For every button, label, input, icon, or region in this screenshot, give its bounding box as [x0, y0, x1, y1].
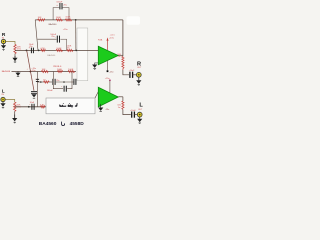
svg-text:100K: 100K	[65, 17, 71, 19]
wire output vertical R	[122, 20, 124, 57]
wire jack R to pot	[6, 42, 16, 45]
watermark box tall	[77, 28, 88, 81]
svg-text:1%: 1%	[67, 47, 70, 49]
resistor R7 output	[122, 56, 124, 70]
svg-text:100K: 100K	[57, 69, 63, 71]
wire diagonal to op2 inverting input	[95, 92, 98, 98]
ground below L feedback wire	[17, 72, 19, 73]
node R3 out	[75, 50, 77, 52]
svg-text:10uF: 10uF	[30, 102, 35, 104]
resistor R13 output L	[122, 101, 124, 109]
ground under R jack	[3, 44, 5, 46]
svg-text:BA4560: BA4560	[47, 54, 56, 57]
wire cap to jack R	[133, 74, 137, 76]
svg-text:100K: 100K	[68, 69, 74, 71]
capacitor C11 output L	[131, 112, 133, 118]
svg-text:10K: 10K	[38, 17, 42, 19]
resistor R11 stub	[44, 81, 50, 83]
wire output vertical L	[122, 97, 124, 101]
wire op2 output	[118, 96, 123, 98]
ground under op2	[100, 104, 102, 108]
wire stub mid L	[38, 81, 53, 83]
wire feedback tap down	[75, 20, 77, 51]
capacitor C5 in vertical	[36, 78, 39, 80]
ground under L jack	[2, 102, 4, 104]
svg-text:100K: 100K	[56, 17, 62, 19]
node feedback tap	[75, 19, 77, 21]
wire cap loop left leg	[53, 8, 59, 20]
node after C1	[38, 50, 40, 52]
capacitor C6 stub	[52, 79, 54, 85]
wire L loop cap	[53, 72, 63, 89]
jack L input	[1, 97, 5, 101]
text box	[46, 98, 95, 114]
jack R output	[136, 72, 141, 77]
svg-text:100K: 100K	[56, 48, 62, 50]
wire to output L jack	[123, 109, 131, 114]
capacitor C1 R input coupling	[30, 48, 32, 54]
node L chain	[28, 106, 30, 108]
wire bias rail vertical	[27, 50, 34, 90]
resistor R3 chain	[66, 49, 72, 51]
svg-text:4.7K: 4.7K	[40, 48, 45, 50]
op-amp U1A	[98, 46, 118, 65]
capacitor C2 feedback	[59, 3, 61, 9]
svg-text:100uF: 100uF	[47, 90, 54, 92]
svg-text:BA4560: BA4560	[49, 23, 58, 26]
wire feedback left drop	[35, 20, 38, 51]
ground under R output jack	[138, 77, 140, 80]
potentiometer L channel	[14, 102, 16, 111]
node stub L left	[40, 81, 42, 83]
resistor R10 L feedback	[68, 70, 75, 72]
svg-text:BA4560: BA4560	[39, 121, 57, 127]
svg-text:PR03LS: PR03LS	[53, 66, 62, 68]
watermark patch	[127, 16, 141, 25]
potentiometer R channel	[14, 45, 16, 54]
wire jack L to pot	[5, 100, 15, 103]
svg-text:10K: 10K	[42, 69, 46, 71]
resistor R4 feedback	[38, 19, 45, 21]
ground under pot L	[14, 115, 16, 119]
wire cap loop right leg	[63, 8, 69, 20]
svg-text:+10uF: +10uF	[129, 70, 136, 72]
op-amp U1B	[98, 87, 118, 107]
supply V- pin op1	[107, 61, 109, 71]
svg-text:R3A: R3A	[98, 38, 103, 41]
jack R input	[1, 39, 5, 43]
capacitor C9 rail horizontal bars	[31, 91, 37, 93]
wire to output R jack	[123, 70, 129, 75]
capacitor C4 output R	[129, 72, 131, 78]
resistor R9 L feedback	[57, 70, 62, 72]
capacitor C7 stub end	[73, 79, 75, 85]
capacitor C8 L loop	[63, 86, 65, 92]
svg-text:100uF: 100uF	[56, 2, 63, 4]
wire L feedback chain	[12, 71, 77, 73]
arabic text squiggles	[59, 103, 77, 108]
capacitor C3 stub	[56, 36, 58, 43]
resistor R2 chain	[56, 49, 63, 51]
bottom glyph	[62, 122, 65, 126]
wire feedback top R	[35, 19, 123, 21]
node rail crossing	[30, 71, 32, 73]
svg-text:BA4560B: BA4560B	[2, 70, 11, 73]
svg-text:L: L	[139, 102, 143, 108]
jack L output	[137, 112, 142, 117]
resistor R1 chain	[41, 49, 46, 51]
node bias tap R	[26, 50, 28, 52]
svg-text:+C15: +C15	[110, 34, 116, 36]
svg-text:+10uF: +10uF	[130, 110, 137, 112]
wire stub mid R	[38, 38, 57, 40]
wire R signal chain	[15, 49, 98, 51]
ground under L output jack	[139, 117, 141, 119]
svg-text:4.7K: 4.7K	[40, 104, 45, 106]
resistor R8 L feedback	[41, 70, 48, 72]
capacitor C10 L coupling	[31, 104, 33, 110]
resistor R6 feedback	[65, 19, 71, 21]
svg-text:25v: 25v	[56, 80, 59, 82]
resistor R12 L chain	[41, 106, 46, 108]
inverting input stub ground op1	[95, 63, 99, 65]
wire L vertical drop	[37, 72, 39, 107]
svg-text:4558D: 4558D	[70, 121, 85, 127]
wire op1 output	[118, 54, 123, 56]
ground under pot R	[14, 56, 16, 58]
ground rail bottom	[31, 94, 36, 97]
wire cap to jack L	[134, 114, 137, 116]
wire L signal chain	[15, 106, 48, 108]
node stub L right	[63, 81, 65, 83]
svg-text:25v: 25v	[51, 36, 54, 38]
resistor R5 feedback	[56, 19, 62, 21]
supply V+ op1 arrow	[107, 41, 109, 50]
